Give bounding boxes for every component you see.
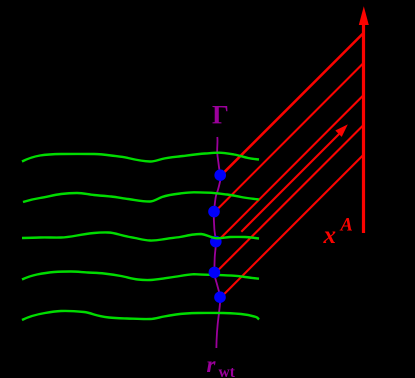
- svg-text:r: r: [207, 352, 217, 377]
- svg-text:A: A: [340, 216, 353, 236]
- red ray from dot 5: [221, 155, 364, 298]
- green wavy line 5: [22, 311, 259, 320]
- green wavy line 2: [23, 192, 259, 202]
- green wavy line 3: [22, 232, 259, 240]
- green wavy line 4: [22, 272, 259, 281]
- label x^A: [323, 216, 353, 250]
- red ray from dot 4: [216, 125, 364, 272]
- svg-text:Γ: Γ: [212, 100, 229, 130]
- blue dot 1: [214, 169, 226, 181]
- green wavy line 1: [22, 153, 259, 162]
- svg-text:x: x: [323, 222, 337, 249]
- red ray from dot 1: [221, 33, 363, 175]
- blue dot 3: [210, 236, 222, 248]
- label r_wt: [207, 352, 236, 378]
- blue dot 2: [208, 206, 220, 218]
- blue dot 4: [209, 267, 221, 279]
- svg-text:wt: wt: [219, 364, 236, 378]
- vertical red line with arrowhead (observer worldline): [359, 6, 369, 233]
- blue dot 5: [214, 291, 226, 303]
- short red arrow (ray direction): [241, 124, 347, 231]
- red ray from dot 2: [215, 63, 364, 212]
- purple worldtube curve Gamma: [214, 137, 221, 348]
- red ray from dot 3: [217, 95, 363, 242]
